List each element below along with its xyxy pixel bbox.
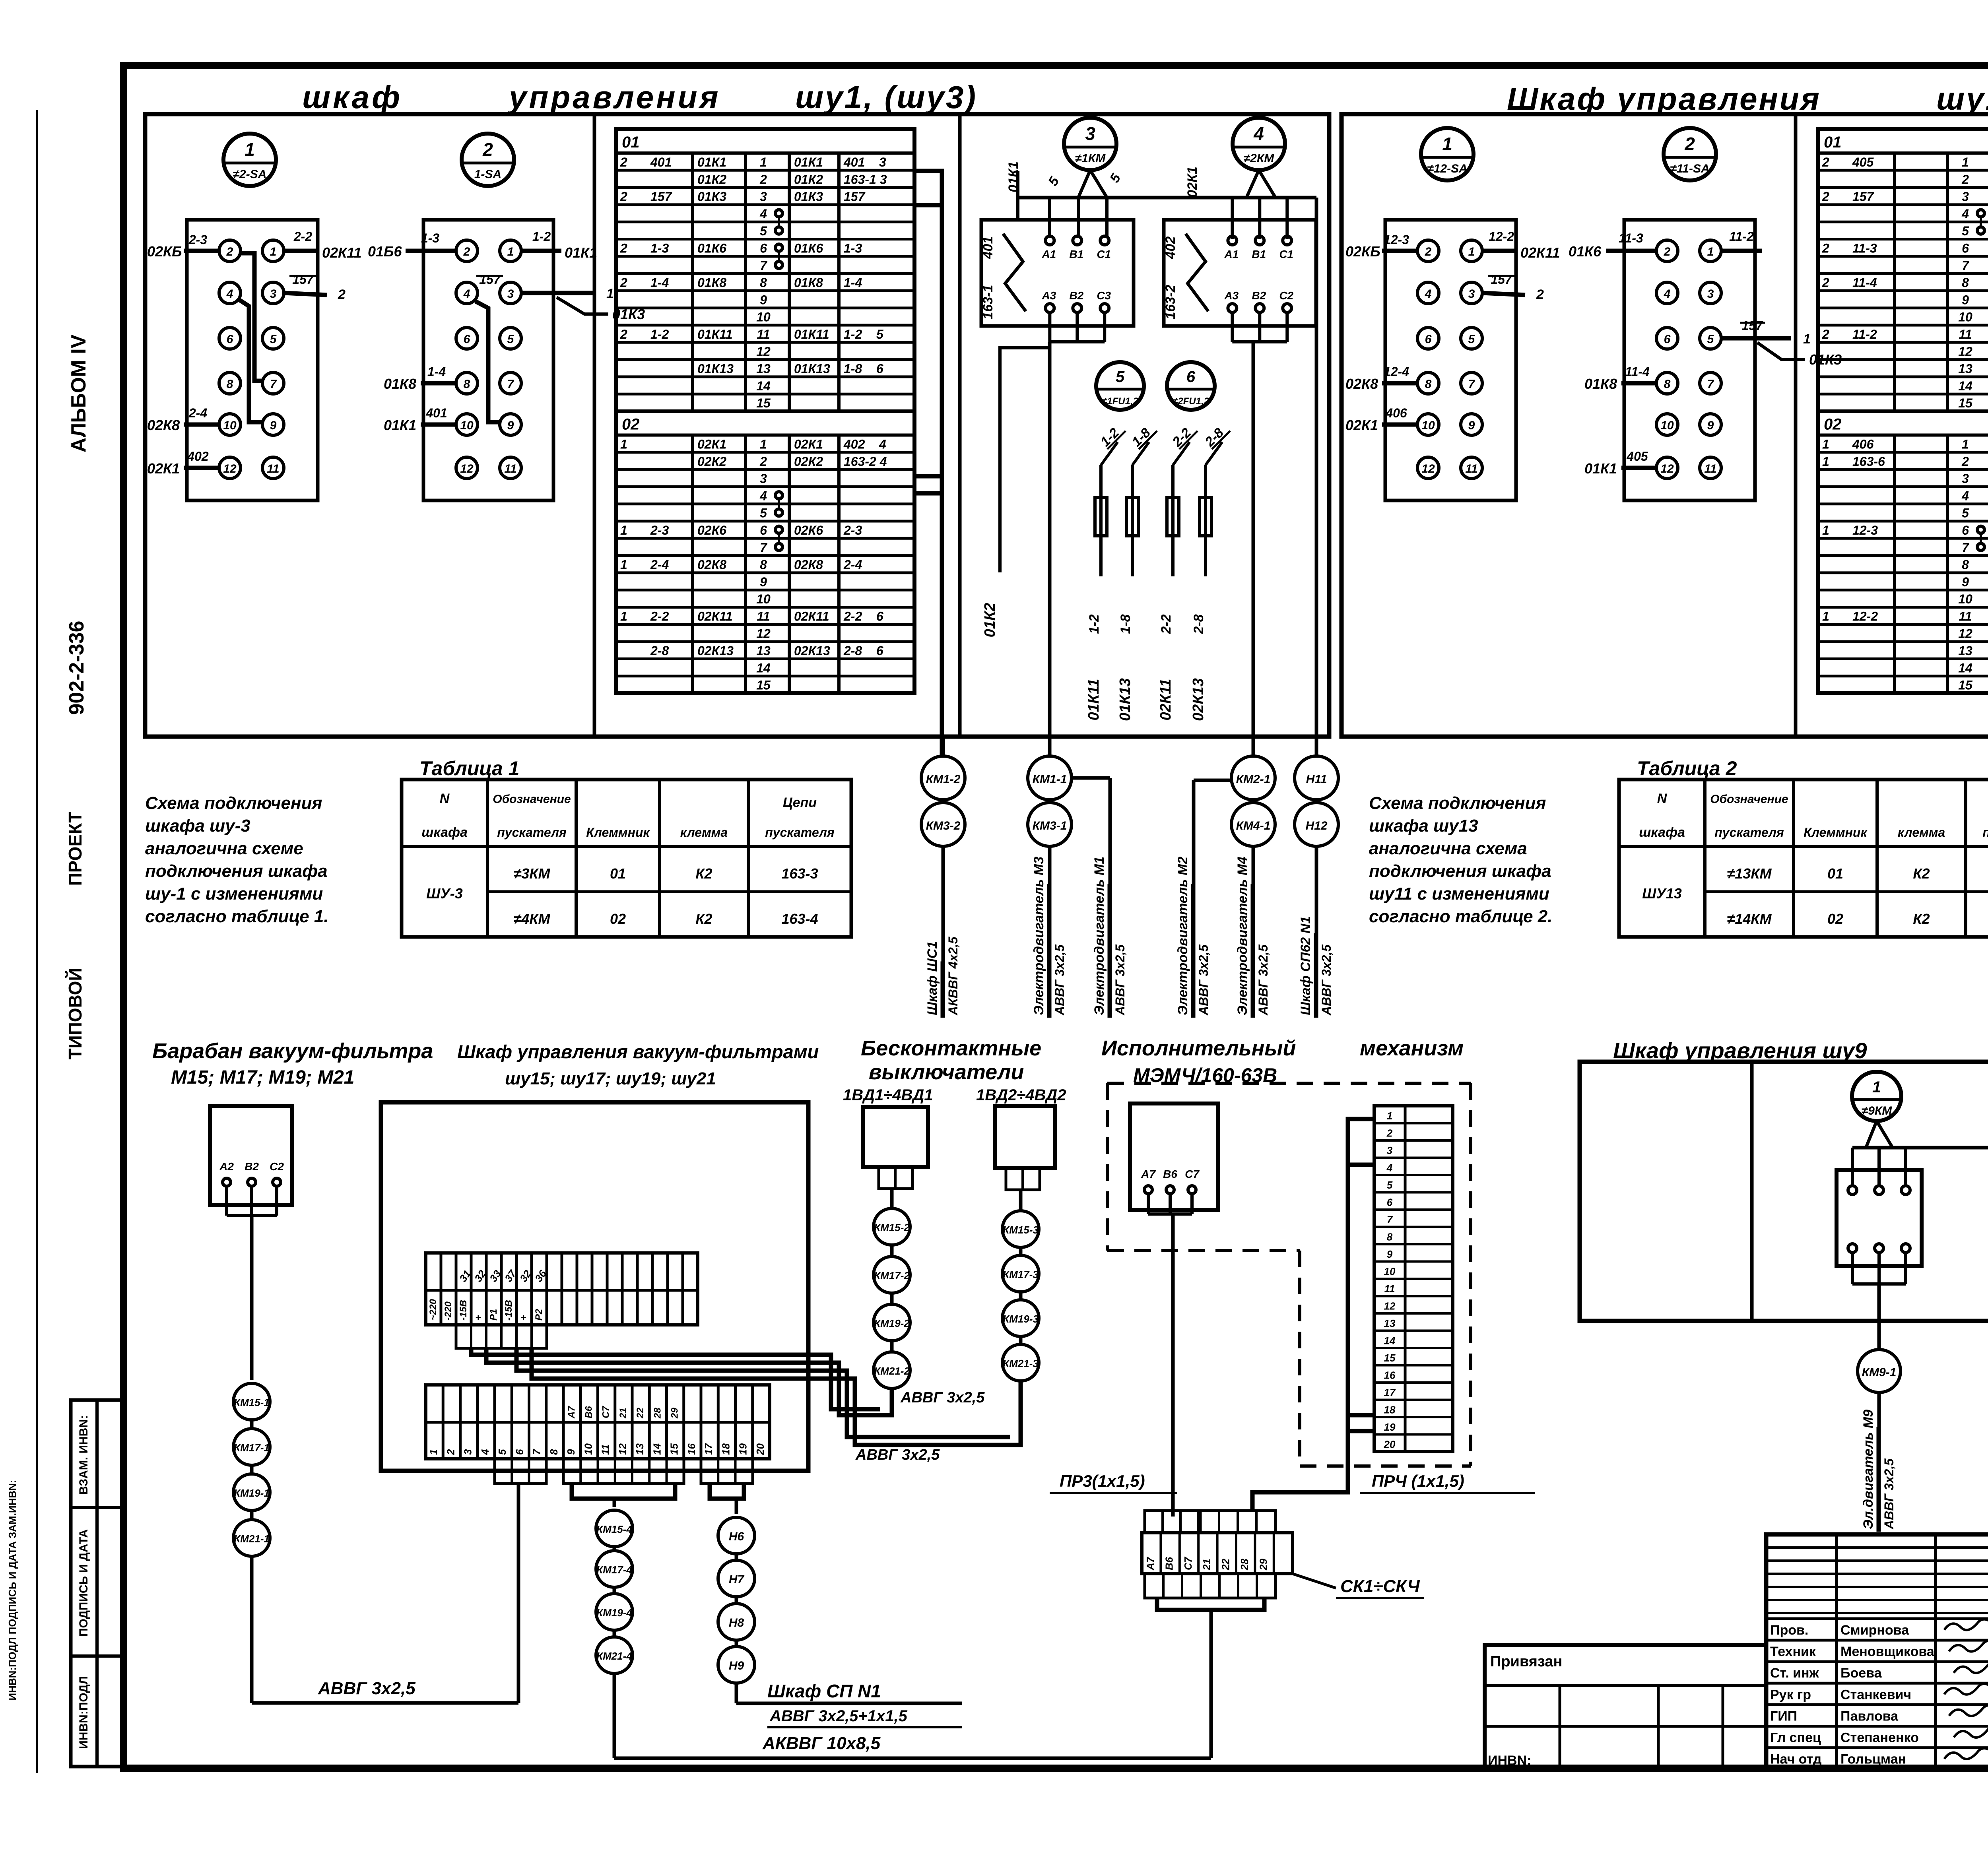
svg-text:02К11: 02К11 xyxy=(794,609,829,624)
svg-text:2: 2 xyxy=(1961,172,1969,186)
cable motor M9 xyxy=(1877,1392,1881,1532)
svg-text:С1: С1 xyxy=(1279,248,1293,260)
svg-text:1: 1 xyxy=(1468,245,1475,258)
svg-text:02К13: 02К13 xyxy=(1190,678,1207,721)
svg-text:≠3КМ: ≠3КМ xyxy=(514,865,551,882)
svg-text:11: 11 xyxy=(1959,609,1972,624)
svg-text:9: 9 xyxy=(1962,575,1969,589)
table T1 column lines xyxy=(691,153,694,411)
svg-text:14: 14 xyxy=(1958,661,1972,675)
feeder KM9-1 wires xyxy=(1851,1253,1854,1284)
svg-text:2: 2 xyxy=(1822,275,1829,290)
svg-text:406: 406 xyxy=(1385,406,1407,420)
table T2 column lines xyxy=(1893,153,1896,411)
fuse 02K13 xyxy=(1204,465,1207,576)
svg-text:15: 15 xyxy=(1384,1352,1396,1364)
wire 01K8 11-4 to XT2r-8 xyxy=(1621,381,1656,386)
cable tag circle КМ15-1 xyxy=(233,1383,270,1420)
svg-text:21: 21 xyxy=(618,1408,629,1419)
svg-text:4: 4 xyxy=(1961,207,1969,221)
svg-text:11: 11 xyxy=(757,609,770,624)
svg-text:АЛЬБОМ IV: АЛЬБОМ IV xyxy=(67,334,90,452)
svg-text:Исполнительный: Исполнительный xyxy=(1101,1036,1296,1060)
svg-text:Электродвигатель М3: Электродвигатель М3 xyxy=(1031,857,1046,1015)
svg-text:1: 1 xyxy=(245,139,255,160)
lamp circuit circle Н9 xyxy=(718,1646,755,1683)
cable to cabinet SP N1 xyxy=(735,1683,738,1703)
svg-text:1: 1 xyxy=(1803,332,1811,347)
svg-text:+: + xyxy=(473,1315,484,1321)
svg-text:12-3: 12-3 xyxy=(1852,523,1878,537)
svg-text:2: 2 xyxy=(1961,454,1969,469)
svg-text:6: 6 xyxy=(1962,241,1969,256)
svg-text:12: 12 xyxy=(756,344,771,359)
cable to Шкаф СП62 N1 xyxy=(1315,846,1318,1018)
svg-text:2: 2 xyxy=(1822,327,1829,341)
svg-text:пускателя: пускателя xyxy=(1714,825,1784,840)
svg-text:11: 11 xyxy=(267,462,279,475)
svg-text:АКВВГ 4х2,5: АКВВГ 4х2,5 xyxy=(946,936,960,1016)
terminal block XT1 of SHU11 xyxy=(1385,220,1516,500)
svg-text:2: 2 xyxy=(759,172,767,186)
svg-text:ГИП: ГИП xyxy=(1770,1709,1797,1724)
svg-text:АВВГ 3х2,5: АВВГ 3х2,5 xyxy=(1256,944,1270,1016)
svg-text:5: 5 xyxy=(1962,506,1969,520)
svg-text:≠2FU1,2: ≠2FU1,2 xyxy=(1173,396,1209,407)
svg-text:шкаф: шкаф xyxy=(302,80,402,115)
svg-text:4: 4 xyxy=(463,287,470,301)
svg-text:15: 15 xyxy=(1958,396,1973,410)
svg-text:02К8: 02К8 xyxy=(1345,376,1378,392)
cable tag circle КМ3-2 xyxy=(921,803,965,846)
svg-text:3: 3 xyxy=(760,190,767,204)
SHU9 internal divider xyxy=(1750,1062,1754,1321)
svg-text:ПР3(1х1,5): ПР3(1х1,5) xyxy=(1060,1472,1145,1490)
switch SA designator 1 (#2-SA) xyxy=(223,134,276,186)
svg-text:АВВГ 3х2,5: АВВГ 3х2,5 xyxy=(1113,944,1127,1016)
svg-text:ИНВN:ПОДЛ ПОДПИСЬ И ДАТА ЗАМ: ИНВN:ПОДЛ ПОДПИСЬ И ДАТА ЗАМ.ИНВN: xyxy=(6,1480,18,1700)
svg-text:02: 02 xyxy=(1827,911,1843,927)
svg-text:1: 1 xyxy=(1962,155,1969,169)
svg-text:КМ21-1: КМ21-1 xyxy=(234,1533,270,1545)
svg-text:21: 21 xyxy=(1201,1559,1213,1571)
svg-text:1: 1 xyxy=(1822,523,1829,537)
svg-text:А1: А1 xyxy=(1224,248,1239,260)
switch designator 2 (#11-SA) xyxy=(1664,128,1716,180)
signature table name rows xyxy=(1766,1617,1988,1620)
svg-text:20: 20 xyxy=(754,1443,766,1455)
svg-text:01К11: 01К11 xyxy=(1085,679,1102,720)
svg-text:15: 15 xyxy=(756,396,771,410)
svg-text:2: 2 xyxy=(226,245,233,258)
svg-text:СК1÷СКЧ: СК1÷СКЧ xyxy=(1340,1577,1420,1596)
svg-text:2-3: 2-3 xyxy=(188,233,207,247)
XT1 internal jumper wires xyxy=(240,253,263,381)
svg-text:02К1: 02К1 xyxy=(1185,167,1200,198)
svg-text:2: 2 xyxy=(338,287,346,302)
svg-text:12-2: 12-2 xyxy=(1852,609,1878,624)
svg-text:02К2: 02К2 xyxy=(697,454,726,469)
svg-text:12-3: 12-3 xyxy=(1384,233,1409,247)
svg-text:12: 12 xyxy=(1958,626,1972,641)
svg-text:5: 5 xyxy=(496,1449,508,1455)
svg-text:29: 29 xyxy=(1257,1559,1269,1571)
svg-text:405: 405 xyxy=(1852,155,1874,169)
svg-text:1-4: 1-4 xyxy=(427,365,446,379)
svg-text:8: 8 xyxy=(760,275,767,290)
svg-text:02К11: 02К11 xyxy=(322,244,362,261)
svg-text:01К13: 01К13 xyxy=(697,362,734,376)
terminal block XT1 of SHU1 xyxy=(187,220,318,500)
svg-text:≠1FU1,2: ≠1FU1,2 xyxy=(1102,396,1139,407)
svg-text:28: 28 xyxy=(652,1408,663,1419)
svg-text:15: 15 xyxy=(756,678,771,692)
svg-text:14: 14 xyxy=(756,661,771,675)
svg-text:6: 6 xyxy=(513,1449,525,1455)
svg-text:2-8: 2-8 xyxy=(1191,614,1206,634)
svg-text:1: 1 xyxy=(620,558,627,572)
svg-text:АВВГ 3х2,5: АВВГ 3х2,5 xyxy=(900,1389,985,1406)
svg-text:3: 3 xyxy=(1962,190,1969,204)
svg-text:АВВГ 3х2,5: АВВГ 3х2,5 xyxy=(1319,944,1334,1016)
svg-text:02К13: 02К13 xyxy=(697,644,734,658)
svg-text:Обозначение: Обозначение xyxy=(1710,793,1788,806)
svg-text:11-4: 11-4 xyxy=(1625,365,1650,379)
cabinet SHU1 enclosure xyxy=(145,114,1329,737)
svg-text:С3: С3 xyxy=(1097,289,1111,302)
cable tag circle KM9-1 xyxy=(1858,1350,1901,1392)
svg-text:4: 4 xyxy=(759,489,767,503)
svg-text:15: 15 xyxy=(1958,678,1973,692)
svg-text:9: 9 xyxy=(1707,419,1714,432)
svg-text:11: 11 xyxy=(1704,462,1716,475)
wire 02K1 402 to XT1-12 xyxy=(184,466,219,470)
privyazan block xyxy=(1485,1645,1766,1769)
svg-text:2-8: 2-8 xyxy=(650,644,669,658)
svg-text:11-2: 11-2 xyxy=(1852,327,1877,341)
svg-text:В6: В6 xyxy=(1163,1557,1175,1570)
svg-text:Гл спец: Гл спец xyxy=(1770,1730,1821,1745)
svg-text:1ВД2÷4ВД2: 1ВД2÷4ВД2 xyxy=(976,1086,1066,1104)
svg-text:шу15; шу17; шу19; шу21: шу15; шу17; шу19; шу21 xyxy=(505,1069,716,1088)
svg-text:шкафа: шкафа xyxy=(421,825,468,840)
wire 01K6 11-3 to XT2r-2 xyxy=(1606,249,1656,253)
svg-text:157: 157 xyxy=(1741,318,1764,333)
svg-text:8: 8 xyxy=(1425,378,1432,391)
svg-text:С7: С7 xyxy=(601,1406,612,1418)
cable to Электродвигатель М4 xyxy=(1252,846,1255,1018)
svg-text:7: 7 xyxy=(1962,258,1970,273)
svg-text:4: 4 xyxy=(479,1449,491,1455)
supply bus wires SHU1 starters xyxy=(1018,196,1316,200)
svg-text:401 3: 401 3 xyxy=(843,155,886,169)
cabinet SHU9 enclosure xyxy=(1580,1062,1988,1321)
svg-text:11-4: 11-4 xyxy=(1852,275,1877,290)
svg-text:7: 7 xyxy=(760,540,768,555)
svg-text:подключения шкафа: подключения шкафа xyxy=(1369,861,1551,881)
wire XT2r-5 157 split to 1 and 01K3 xyxy=(1721,336,1791,341)
cable tag circle КМ17-1 xyxy=(233,1429,270,1465)
wire XT1-1 to 02K11 xyxy=(284,249,319,253)
svg-text:13: 13 xyxy=(756,362,771,376)
sidebar stamp boxes xyxy=(71,1400,124,1767)
svg-text:КМ15-4: КМ15-4 xyxy=(596,1523,632,1535)
svg-text:5: 5 xyxy=(1707,333,1714,346)
svg-text:К2: К2 xyxy=(1913,911,1930,927)
svg-text:5: 5 xyxy=(1962,224,1969,238)
svg-text:401: 401 xyxy=(425,406,447,420)
svg-text:22: 22 xyxy=(635,1408,646,1419)
svg-text:5: 5 xyxy=(760,506,767,520)
svg-text:1-3: 1-3 xyxy=(844,241,862,256)
cable tag circle КМ15-4 xyxy=(596,1510,633,1547)
svg-text:аналогична схема: аналогична схема xyxy=(1369,839,1527,858)
svg-text:7: 7 xyxy=(760,258,768,273)
svg-text:8: 8 xyxy=(227,378,233,391)
svg-text:4: 4 xyxy=(1425,287,1432,301)
svg-text:ШУ13: ШУ13 xyxy=(1642,885,1682,902)
wires stubs to KM15-4 chain xyxy=(572,1484,614,1499)
svg-text:Эл.двигатель М9: Эл.двигатель М9 xyxy=(1861,1410,1876,1529)
svg-text:2-8 6: 2-8 6 xyxy=(843,644,883,658)
wire 02K8 12-4 to XT1r-8 xyxy=(1382,381,1417,386)
svg-text:2: 2 xyxy=(1386,1127,1393,1139)
svg-text:3: 3 xyxy=(1468,287,1475,301)
svg-text:В2: В2 xyxy=(1069,289,1083,302)
svg-text:шу11 с изменениями: шу11 с изменениями xyxy=(1369,884,1549,904)
svg-text:5: 5 xyxy=(270,333,277,346)
wire XT2-1 to 01K1 xyxy=(521,249,561,253)
bracket wires connector strip xyxy=(1348,1119,1374,1431)
svg-text:КМ19-2: КМ19-2 xyxy=(874,1317,910,1329)
wire bundle to switch chain 1 xyxy=(471,1348,880,1409)
svg-text:5: 5 xyxy=(507,333,514,346)
wire XT2r-1 to 11-2 xyxy=(1721,249,1762,253)
svg-text:1: 1 xyxy=(1822,454,1829,469)
svg-text:-15В: -15В xyxy=(503,1300,514,1321)
svg-text:шкафа: шкафа xyxy=(1639,825,1685,840)
svg-text:Клеммник: Клеммник xyxy=(1804,825,1868,840)
label SK1-SK4 xyxy=(1293,1574,1336,1588)
svg-text:-15В: -15В xyxy=(458,1300,469,1321)
svg-text:В6: В6 xyxy=(583,1406,594,1418)
svg-text:Обозначение: Обозначение xyxy=(493,793,571,806)
cable tag circle КМ3-1 xyxy=(1028,803,1072,846)
svg-text:КМ15-3: КМ15-3 xyxy=(1003,1224,1039,1236)
wires stubs to lamp chain H6-H9 xyxy=(710,1484,736,1499)
cable tag circle Н12 xyxy=(1295,803,1338,846)
svg-text:N: N xyxy=(440,791,450,806)
svg-text:1: 1 xyxy=(1822,609,1829,624)
svg-text:АВВГ 3х2,5+1х1,5: АВВГ 3х2,5+1х1,5 xyxy=(769,1707,908,1725)
svg-text:8: 8 xyxy=(464,378,470,391)
svg-text:406: 406 xyxy=(1852,437,1874,452)
lower strip stubs group 17-19 xyxy=(701,1459,753,1484)
svg-text:11-3: 11-3 xyxy=(1852,241,1877,256)
svg-text:1-3: 1-3 xyxy=(650,241,669,256)
cable tag circle КМ21-2 xyxy=(874,1352,910,1389)
svg-text:02К6: 02К6 xyxy=(794,523,823,537)
svg-text:13: 13 xyxy=(1958,362,1972,376)
svg-text:ПОДПИСЬ И ДАТА: ПОДПИСЬ И ДАТА xyxy=(77,1529,90,1637)
magnetic starter KM2 box xyxy=(1164,220,1316,326)
svg-text:≠11-SА: ≠11-SА xyxy=(1670,162,1709,175)
svg-text:14: 14 xyxy=(1384,1335,1396,1347)
svg-text:АВВГ 3х2,5: АВВГ 3х2,5 xyxy=(1052,944,1067,1016)
svg-text:4: 4 xyxy=(1253,123,1264,144)
starter designator 4 (#2KM) xyxy=(1233,118,1285,170)
svg-text:01К11: 01К11 xyxy=(697,327,732,341)
svg-text:10: 10 xyxy=(1958,592,1972,606)
cable tag circle КМ19-4 xyxy=(596,1594,633,1630)
svg-text:4: 4 xyxy=(1386,1162,1393,1174)
lower strip stubs group 9-15 xyxy=(563,1459,684,1484)
svg-text:ШУ-3: ШУ-3 xyxy=(426,885,463,902)
svg-text:12: 12 xyxy=(617,1443,629,1455)
svg-text:шкафа шу13: шкафа шу13 xyxy=(1369,816,1478,836)
svg-text:902-2-336: 902-2-336 xyxy=(65,621,88,715)
svg-text:3: 3 xyxy=(760,471,767,486)
svg-text:12: 12 xyxy=(223,462,237,475)
table T1 row lines xyxy=(616,169,914,172)
supply wires SHU9 xyxy=(1852,1146,1988,1150)
wire XT1r-3 157 to 2 xyxy=(1482,293,1525,295)
svg-text:Н12: Н12 xyxy=(1305,819,1327,832)
svg-text:1: 1 xyxy=(1962,437,1969,452)
svg-text:1: 1 xyxy=(760,437,767,452)
svg-text:Барабан вакуум-фильтра: Барабан вакуум-фильтра xyxy=(152,1039,433,1063)
svg-text:2: 2 xyxy=(1684,134,1695,154)
svg-text:1: 1 xyxy=(620,609,627,624)
cable AKVVG 10x8.5 run xyxy=(613,1674,616,1758)
svg-text:01К3: 01К3 xyxy=(794,190,823,204)
svg-text:М15; М17; М19; М21: М15; М17; М19; М21 xyxy=(171,1067,354,1088)
svg-text:2: 2 xyxy=(1664,245,1671,258)
svg-text:1-2 5: 1-2 5 xyxy=(844,327,884,341)
svg-text:11-3: 11-3 xyxy=(1619,231,1643,245)
svg-text:управления: управления xyxy=(507,80,721,115)
svg-text:01К8: 01К8 xyxy=(794,275,823,290)
svg-text:2: 2 xyxy=(620,241,627,256)
lamp circuit circle Н7 xyxy=(718,1560,755,1597)
svg-text:8: 8 xyxy=(1962,275,1969,290)
svg-text:13: 13 xyxy=(1384,1317,1396,1329)
svg-text:В1: В1 xyxy=(1252,248,1266,260)
svg-text:2: 2 xyxy=(620,190,627,204)
svg-text:К2: К2 xyxy=(695,865,712,882)
svg-text:6: 6 xyxy=(1425,333,1432,346)
fuse designator 6 (#2FU) xyxy=(1167,362,1215,410)
svg-text:15: 15 xyxy=(668,1443,680,1455)
svg-text:2: 2 xyxy=(1822,155,1829,169)
svg-text:3: 3 xyxy=(1707,287,1714,301)
svg-text:2-4: 2-4 xyxy=(188,406,207,420)
svg-text:≠1КМ: ≠1КМ xyxy=(1075,152,1106,165)
svg-text:10: 10 xyxy=(223,419,237,432)
svg-text:ИНВN:ПОДЛ: ИНВN:ПОДЛ xyxy=(77,1676,90,1749)
svg-text:А3: А3 xyxy=(1224,289,1239,302)
fuse 02K11 xyxy=(1171,465,1175,576)
svg-text:1-SА: 1-SА xyxy=(474,168,501,181)
svg-text:157: 157 xyxy=(844,190,866,204)
signature table columns xyxy=(1835,1534,1838,1769)
fuse 01K13 xyxy=(1131,465,1134,576)
svg-text:3: 3 xyxy=(1387,1144,1393,1156)
svg-text:≠12-SА: ≠12-SА xyxy=(1427,162,1468,175)
svg-text:01К6: 01К6 xyxy=(697,241,726,256)
wire 02KB 12-3 to XT1r-2 xyxy=(1382,249,1417,253)
svg-text:1: 1 xyxy=(507,245,514,258)
svg-text:Шкаф управления: Шкаф управления xyxy=(1507,81,1821,116)
svg-text:8: 8 xyxy=(1962,558,1969,572)
svg-text:1ВД1÷4ВД1: 1ВД1÷4ВД1 xyxy=(843,1086,933,1104)
cable tag circle КМ17-3 xyxy=(1002,1255,1039,1292)
svg-text:12: 12 xyxy=(1958,344,1972,359)
svg-text:11: 11 xyxy=(1465,462,1477,475)
svg-text:6: 6 xyxy=(1664,333,1671,346)
svg-text:163-4: 163-4 xyxy=(781,911,818,927)
svg-text:7: 7 xyxy=(1962,540,1970,555)
svg-text:9: 9 xyxy=(1387,1248,1393,1260)
lamp circuit circle Н8 xyxy=(718,1604,755,1640)
svg-text:12: 12 xyxy=(756,626,771,641)
wire bracket from table T1 to KM1-2 feeder xyxy=(914,171,942,756)
svg-text:клемма: клемма xyxy=(1898,825,1945,840)
svg-text:6: 6 xyxy=(227,333,233,346)
svg-text:17: 17 xyxy=(703,1443,714,1455)
svg-text:02КБ: 02КБ xyxy=(147,243,182,260)
starter designator 1 (#9KM) xyxy=(1852,1072,1901,1121)
svg-text:1-4: 1-4 xyxy=(650,275,669,290)
svg-text:01К1: 01К1 xyxy=(697,155,726,169)
svg-text:2-3: 2-3 xyxy=(843,523,862,537)
upper terminal strip SHU15 xyxy=(426,1253,698,1325)
svg-text:3: 3 xyxy=(462,1449,474,1455)
svg-text:КМ17-2: КМ17-2 xyxy=(874,1270,910,1282)
cable tag circle КМ2-1 xyxy=(1231,756,1275,800)
drum terminal box xyxy=(210,1106,292,1205)
svg-text:157: 157 xyxy=(650,190,673,204)
svg-text:Электродвигатель М4: Электродвигатель М4 xyxy=(1235,857,1250,1015)
svg-text:01К2: 01К2 xyxy=(794,172,823,186)
svg-text:01К3: 01К3 xyxy=(697,190,726,204)
svg-text:1: 1 xyxy=(606,286,614,301)
cable tag circle КМ15-2 xyxy=(874,1208,910,1245)
svg-text:3: 3 xyxy=(1085,123,1095,144)
svg-text:02К6: 02К6 xyxy=(697,523,726,537)
wires starter KM1 to motor feeder xyxy=(1048,312,1051,342)
svg-text:КМ17-4: КМ17-4 xyxy=(596,1564,632,1576)
svg-text:1-2: 1-2 xyxy=(532,229,551,244)
svg-text:ПРОЕКТ: ПРОЕКТ xyxy=(65,812,85,886)
svg-text:02: 02 xyxy=(610,911,626,927)
svg-text:Электродвигатель М2: Электродвигатель М2 xyxy=(1175,857,1190,1015)
svg-text:шкафа шу-3: шкафа шу-3 xyxy=(145,816,250,836)
svg-text:1: 1 xyxy=(1387,1110,1392,1122)
svg-text:4: 4 xyxy=(759,207,767,221)
svg-text:02К1: 02К1 xyxy=(794,437,823,452)
svg-text:аналогична схеме: аналогична схеме xyxy=(145,839,303,858)
svg-text:01К6: 01К6 xyxy=(794,241,823,256)
svg-text:5: 5 xyxy=(1116,368,1125,386)
svg-text:Меновщикова: Меновщикова xyxy=(1840,1644,1935,1659)
svg-text:1-3: 1-3 xyxy=(421,231,439,245)
svg-text:3: 3 xyxy=(507,287,514,301)
svg-text:≠2-SА: ≠2-SА xyxy=(233,168,267,181)
svg-text:18: 18 xyxy=(1384,1404,1396,1416)
svg-text:Шкаф ШС1: Шкаф ШС1 xyxy=(925,941,940,1015)
signature table top grid rows xyxy=(1766,1546,1988,1549)
